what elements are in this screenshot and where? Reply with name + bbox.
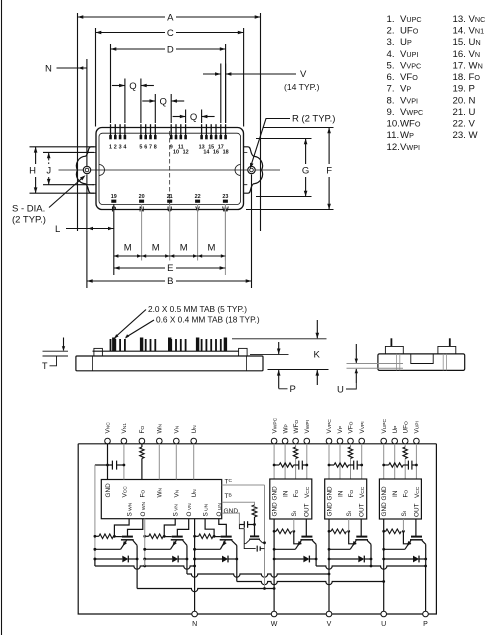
svg-text:T: T bbox=[42, 361, 48, 371]
output terminal P bbox=[423, 611, 429, 617]
W OUT pin stub bbox=[305, 519, 307, 536]
W gate resistor bbox=[274, 530, 276, 532]
low-side cell V: gate resistor bbox=[145, 535, 149, 537]
V FO vertical resistor bbox=[348, 447, 352, 459]
W GND pin stub bbox=[273, 519, 275, 531]
svg-text:O WN: O WN bbox=[140, 502, 147, 517]
svg-text:VWPC: VWPC bbox=[271, 417, 278, 433]
TB wire + resistor bbox=[222, 502, 255, 505]
svg-text:6: 6 bbox=[144, 145, 147, 151]
svg-text:6.: 6. bbox=[387, 72, 395, 83]
svg-text:D: D bbox=[167, 44, 174, 55]
svg-text:FO: FO bbox=[348, 490, 355, 498]
dim V bbox=[203, 73, 221, 75]
U low collector vertical bbox=[235, 558, 238, 561]
dim F extension lines bbox=[263, 127, 334, 129]
svg-text:GND GND: GND GND bbox=[326, 486, 333, 517]
svg-text:H: H bbox=[29, 166, 36, 177]
svg-text:VVPC: VVPC bbox=[326, 419, 333, 434]
svg-text:C: C bbox=[167, 28, 174, 39]
svg-text:U: U bbox=[469, 107, 476, 118]
svg-text:L: L bbox=[55, 224, 60, 235]
svg-text:O VN: O VN bbox=[186, 503, 193, 517]
svg-text:FO: FO bbox=[469, 72, 481, 83]
U output line bbox=[383, 531, 385, 611]
dim U reference lines bbox=[347, 363, 404, 365]
svg-text:N: N bbox=[45, 64, 52, 75]
V input network wire bbox=[329, 464, 334, 466]
dim C bbox=[96, 32, 166, 34]
dim A extension lines bbox=[77, 13, 79, 231]
svg-text:N: N bbox=[469, 95, 476, 106]
svg-text:VFO: VFO bbox=[348, 421, 355, 433]
baseplate left hole line bbox=[92, 356, 94, 371]
svg-text:G: G bbox=[302, 166, 309, 177]
svg-text:U: U bbox=[381, 621, 386, 628]
svg-text:K: K bbox=[314, 350, 321, 361]
V emitter wire bbox=[145, 548, 171, 550]
terminal WP bbox=[282, 438, 288, 444]
U S pin elbow bbox=[205, 519, 214, 537]
dim J extension lines bbox=[43, 151, 94, 153]
svg-text:F: F bbox=[326, 166, 332, 177]
GND wire bbox=[222, 513, 240, 524]
dim T bbox=[43, 350, 69, 352]
svg-text:2.0 X 0.5 MM TAB (5 TYP.): 2.0 X 0.5 MM TAB (5 TYP.) bbox=[148, 304, 247, 314]
V S pin elbow bbox=[164, 519, 175, 537]
left ear notch lines bbox=[92, 152, 96, 184]
svg-text:22: 22 bbox=[195, 194, 201, 200]
svg-text:12: 12 bbox=[183, 150, 189, 156]
terminal FO bbox=[139, 438, 145, 444]
dim K extension lines bbox=[232, 338, 327, 340]
terminal VVPI bbox=[359, 438, 365, 444]
svg-text:VUPI: VUPI bbox=[414, 421, 421, 433]
svg-text:J: J bbox=[46, 166, 51, 177]
vertical center dash line bbox=[169, 131, 171, 206]
svg-text:19.: 19. bbox=[453, 84, 466, 95]
dim J bbox=[48, 152, 50, 184]
svg-text:WP: WP bbox=[400, 130, 414, 141]
dim A bbox=[78, 16, 166, 18]
svg-text:UFO: UFO bbox=[400, 26, 419, 37]
svg-text:VWPC: VWPC bbox=[400, 107, 423, 118]
VN1 stub bbox=[123, 444, 125, 480]
svg-text:23.: 23. bbox=[453, 130, 466, 141]
horizontal center line bbox=[59, 169, 84, 171]
dim V extension lines bbox=[220, 64, 222, 124]
dim P bbox=[278, 342, 280, 354]
U Si pin stub bbox=[402, 519, 404, 531]
end view right post bbox=[438, 346, 456, 354]
P bus bbox=[316, 566, 426, 569]
svg-text:16.: 16. bbox=[453, 49, 466, 60]
svg-text:OUT: OUT bbox=[413, 503, 420, 517]
terminal VN1 bbox=[121, 438, 127, 444]
svg-text:7: 7 bbox=[149, 145, 152, 151]
svg-text:10.: 10. bbox=[387, 119, 400, 130]
svg-text:(2 TYP.): (2 TYP.) bbox=[12, 215, 46, 226]
svg-text:21.: 21. bbox=[453, 107, 466, 118]
S-DIA leader bbox=[49, 177, 84, 208]
M extension lines from bottom tabs bbox=[141, 204, 143, 261]
svg-text:WN: WN bbox=[157, 487, 164, 497]
dim Q1 extension lines bbox=[124, 79, 126, 124]
terminal VP bbox=[337, 438, 343, 444]
svg-text:UN: UN bbox=[469, 37, 481, 48]
svg-text:8.: 8. bbox=[387, 95, 395, 106]
U low freewheel diode bbox=[195, 558, 222, 560]
V collector line to P bus bbox=[370, 544, 372, 566]
svg-text:S - DIA.: S - DIA. bbox=[12, 204, 45, 215]
dim D bbox=[111, 48, 166, 50]
high-side IGBT W bbox=[301, 536, 312, 538]
svg-text:21: 21 bbox=[167, 194, 173, 200]
svg-text:2: 2 bbox=[114, 145, 117, 151]
svg-text:VN1: VN1 bbox=[469, 26, 485, 37]
R leader bbox=[251, 119, 291, 168]
svg-text:5.: 5. bbox=[387, 60, 395, 71]
U FO vertical resistor bbox=[403, 447, 407, 459]
svg-text:VVPI: VVPI bbox=[400, 95, 418, 106]
schematic top bus line bbox=[78, 443, 436, 445]
V emitter wire bbox=[329, 548, 350, 550]
svg-text:VNC: VNC bbox=[105, 422, 112, 434]
svg-text:B: B bbox=[167, 276, 173, 287]
V low freewheel diode bbox=[145, 558, 172, 560]
W low freewheel diode bbox=[95, 558, 122, 560]
dim Q2 bbox=[142, 100, 155, 102]
svg-text:W: W bbox=[469, 130, 479, 141]
dim D extension lines bbox=[110, 44, 112, 123]
side view case top bbox=[93, 350, 239, 352]
svg-text:VUPC: VUPC bbox=[381, 418, 388, 433]
dim H bbox=[35, 147, 37, 164]
right inner bump bbox=[235, 165, 240, 176]
W collector line to P bus bbox=[315, 544, 317, 566]
svg-text:3.: 3. bbox=[387, 37, 395, 48]
svg-text:VVPI: VVPI bbox=[359, 421, 366, 433]
U low collector route bbox=[236, 545, 238, 581]
svg-text:VN1: VN1 bbox=[121, 423, 128, 434]
end view left pin bbox=[390, 338, 392, 346]
end view right pin bbox=[449, 338, 451, 346]
U OUT pin stub bbox=[415, 519, 417, 536]
svg-text:WP: WP bbox=[282, 424, 289, 433]
schematic frame bbox=[78, 444, 436, 614]
svg-text:V: V bbox=[300, 69, 307, 80]
dim H extension lines bbox=[30, 146, 95, 148]
terminal VVPC bbox=[326, 438, 332, 444]
sensor cap 2 bbox=[256, 546, 258, 552]
VNC stub bbox=[107, 444, 109, 480]
svg-text:VN: VN bbox=[174, 489, 181, 497]
output terminal W bbox=[271, 611, 277, 617]
svg-text:VCC: VCC bbox=[304, 486, 311, 498]
high-side driver IC U box bbox=[379, 479, 421, 519]
svg-text:12.: 12. bbox=[387, 142, 400, 153]
U emitter wire bbox=[195, 548, 221, 550]
dim B bbox=[87, 280, 165, 282]
svg-text:VUPC: VUPC bbox=[400, 14, 422, 25]
dim Q3 bbox=[173, 116, 186, 118]
sensor transistor bbox=[254, 525, 256, 537]
svg-text:M: M bbox=[180, 243, 188, 254]
svg-text:19: 19 bbox=[111, 194, 117, 200]
terminal VUPC bbox=[381, 438, 387, 444]
E/L extension line (pin19) bbox=[113, 204, 115, 275]
svg-text:7.: 7. bbox=[387, 84, 395, 95]
svg-text:11.: 11. bbox=[387, 130, 400, 141]
svg-text:20: 20 bbox=[139, 194, 145, 200]
cap between VNC and VN1 lines bbox=[95, 464, 113, 466]
high-side group U: terminal stubs bbox=[383, 444, 385, 479]
module body inner lip bbox=[99, 133, 241, 204]
dim G extension lines bbox=[256, 138, 312, 140]
WN stub bbox=[158, 444, 160, 480]
svg-text:VP: VP bbox=[337, 426, 344, 434]
svg-text:VCC: VCC bbox=[414, 486, 421, 498]
low-side IGBT W bbox=[122, 536, 133, 538]
svg-text:M: M bbox=[208, 243, 216, 254]
high-side group W: terminal stubs bbox=[273, 444, 275, 479]
terminal VUPI bbox=[414, 438, 420, 444]
V low collector vertical bbox=[186, 558, 189, 561]
svg-text:14.: 14. bbox=[453, 26, 466, 37]
svg-text:SI: SI bbox=[401, 511, 408, 517]
svg-text:S VN: S VN bbox=[173, 504, 180, 517]
side view right post bbox=[239, 348, 248, 356]
dim P extension line (case top) bbox=[250, 354, 289, 356]
W output line bbox=[273, 531, 275, 611]
right mounting ear bbox=[244, 147, 263, 193]
svg-text:SI: SI bbox=[346, 511, 353, 517]
svg-text:R (2 TYP.): R (2 TYP.) bbox=[292, 114, 335, 125]
V GND pin stub bbox=[328, 519, 330, 531]
svg-text:Q: Q bbox=[190, 112, 197, 123]
W FO vertical resistor bbox=[293, 447, 297, 459]
svg-text:W: W bbox=[271, 621, 278, 628]
dim Q3 extension lines bbox=[185, 110, 187, 124]
svg-text:GND GND: GND GND bbox=[381, 486, 388, 517]
svg-text:P: P bbox=[469, 84, 475, 95]
terminal UN bbox=[191, 438, 197, 444]
svg-text:O UN: O UN bbox=[216, 503, 223, 517]
terminal WN bbox=[157, 438, 163, 444]
terminal VN bbox=[174, 438, 180, 444]
right ear notch lines bbox=[244, 152, 248, 184]
dim Q1 bbox=[112, 85, 125, 87]
svg-text:V: V bbox=[327, 621, 332, 628]
svg-text:(14 TYP.): (14 TYP.) bbox=[284, 82, 320, 92]
svg-text:VCC: VCC bbox=[121, 486, 128, 498]
dim M x4 bbox=[114, 255, 142, 257]
svg-text:18.: 18. bbox=[453, 72, 466, 83]
svg-text:N: N bbox=[192, 621, 197, 628]
side view left post bbox=[94, 348, 103, 356]
W S pin elbow bbox=[114, 519, 129, 537]
svg-text:4.: 4. bbox=[387, 49, 395, 60]
V a-line from IC bbox=[144, 519, 146, 566]
low-side emitter bus to N bbox=[94, 559, 96, 566]
terminal UP bbox=[392, 438, 398, 444]
svg-text:A: A bbox=[167, 12, 174, 23]
UN stub bbox=[193, 444, 195, 480]
TC vertical bbox=[264, 485, 266, 589]
svg-text:1.: 1. bbox=[387, 14, 395, 25]
svg-text:FO: FO bbox=[403, 490, 410, 498]
W input network wire bbox=[274, 464, 279, 466]
svg-text:18: 18 bbox=[223, 150, 229, 156]
svg-text:22.: 22. bbox=[453, 119, 466, 130]
terminal VNC bbox=[105, 438, 111, 444]
module body outline (top view) bbox=[96, 128, 244, 210]
dim U bbox=[355, 344, 357, 363]
svg-text:5: 5 bbox=[139, 145, 142, 151]
U O pin elbow bbox=[219, 519, 227, 536]
svg-text:23: 23 bbox=[222, 194, 228, 200]
svg-text:9.: 9. bbox=[387, 107, 395, 118]
sensor cap bbox=[239, 524, 244, 526]
svg-text:S WN: S WN bbox=[127, 502, 134, 516]
TC wire bbox=[222, 484, 265, 486]
W emitter wire bbox=[274, 548, 295, 550]
side view thick tabs (5) bbox=[112, 338, 115, 352]
high-side IGBT V bbox=[356, 536, 367, 538]
svg-text:VWPI: VWPI bbox=[400, 142, 420, 153]
svg-text:VCC: VCC bbox=[359, 486, 366, 498]
dim G bbox=[305, 139, 307, 165]
output terminal U bbox=[381, 611, 387, 617]
svg-text:8: 8 bbox=[154, 145, 157, 151]
svg-text:P: P bbox=[423, 621, 428, 628]
V gate resistor bbox=[329, 530, 331, 532]
U input network wire bbox=[384, 464, 389, 466]
output terminal N bbox=[192, 611, 198, 617]
low-side IGBT U bbox=[221, 536, 232, 538]
V OUT pin stub bbox=[360, 519, 362, 536]
svg-text:GND: GND bbox=[224, 508, 239, 515]
left mounting hole bbox=[83, 166, 90, 173]
svg-text:3: 3 bbox=[119, 145, 122, 151]
svg-text:WN: WN bbox=[157, 423, 164, 433]
svg-text:UN: UN bbox=[191, 425, 198, 434]
page border line bbox=[1, 0, 3, 635]
low-side cell W: gate resistor bbox=[95, 535, 99, 537]
svg-text:FO: FO bbox=[139, 426, 146, 434]
high-side IGBT U bbox=[411, 536, 422, 538]
low-side cell U: gate resistor bbox=[195, 535, 199, 537]
dim Q2 extension lines bbox=[154, 94, 156, 123]
svg-text:VP: VP bbox=[400, 84, 411, 95]
dim E bbox=[114, 267, 165, 269]
svg-text:VVPC: VVPC bbox=[400, 60, 421, 71]
FO stub + resistor bbox=[141, 444, 143, 447]
svg-text:Q: Q bbox=[129, 81, 136, 92]
U gate resistor bbox=[384, 530, 386, 532]
U emitter wire bbox=[384, 548, 405, 550]
high-side driver IC W box bbox=[270, 479, 312, 519]
svg-text:1: 1 bbox=[109, 145, 112, 151]
output terminal V bbox=[326, 611, 332, 617]
U collector line to P bus bbox=[425, 544, 427, 566]
end view center recess bbox=[411, 354, 433, 364]
end view through lines bbox=[396, 354, 398, 371]
svg-text:WFO: WFO bbox=[293, 420, 300, 434]
svg-text:V: V bbox=[469, 119, 476, 130]
svg-text:17.: 17. bbox=[453, 60, 466, 71]
svg-text:GND GND: GND GND bbox=[272, 486, 279, 517]
W low collector route bbox=[136, 545, 138, 588]
terminal WFO bbox=[293, 438, 299, 444]
svg-text:0.6 X 0.4 MM TAB (18 TYP.): 0.6 X 0.4 MM TAB (18 TYP.) bbox=[156, 315, 260, 325]
W O pin elbow bbox=[128, 519, 143, 536]
W emitter wire bbox=[95, 548, 121, 550]
svg-text:M: M bbox=[124, 243, 132, 254]
svg-text:13.: 13. bbox=[453, 14, 466, 25]
svg-text:UN: UN bbox=[191, 489, 198, 498]
side view thin tabs (18) bbox=[110, 339, 112, 351]
svg-text:U: U bbox=[337, 385, 344, 396]
high-side group V: terminal stubs bbox=[328, 444, 330, 479]
U freewheel diode bbox=[384, 558, 413, 560]
U GND pin stub bbox=[383, 519, 385, 531]
svg-text:GND: GND bbox=[105, 483, 112, 498]
V low collector route bbox=[186, 545, 188, 574]
W freewheel diode bbox=[274, 558, 303, 560]
svg-text:E: E bbox=[167, 263, 173, 274]
VN stub bbox=[175, 444, 177, 480]
svg-text:IN: IN bbox=[392, 490, 399, 497]
V O pin elbow bbox=[177, 519, 188, 536]
dim F bbox=[328, 128, 330, 165]
svg-text:OUT: OUT bbox=[359, 503, 366, 517]
terminal VWPC bbox=[271, 438, 277, 444]
P feed line bbox=[425, 566, 427, 611]
terminal VWPI bbox=[304, 438, 310, 444]
right mounting hole bbox=[248, 166, 255, 173]
svg-text:P: P bbox=[290, 384, 296, 395]
baseplate right hole line bbox=[246, 356, 248, 371]
W low collector vertical bbox=[136, 558, 139, 561]
signal ground line down from cap junction (W a-line) bbox=[94, 465, 96, 566]
svg-text:2.: 2. bbox=[387, 26, 395, 37]
svg-text:FO: FO bbox=[293, 490, 300, 498]
svg-text:Q: Q bbox=[160, 96, 167, 107]
svg-text:WFO: WFO bbox=[400, 119, 421, 130]
svg-text:UFO: UFO bbox=[402, 421, 409, 434]
svg-text:FO: FO bbox=[139, 490, 146, 498]
svg-text:VN: VN bbox=[174, 425, 181, 433]
svg-text:VFO: VFO bbox=[400, 72, 418, 83]
left mounting ear bbox=[76, 147, 96, 193]
svg-text:SI: SI bbox=[291, 511, 298, 517]
svg-text:VWPI: VWPI bbox=[304, 420, 311, 434]
low-side driver IC box bbox=[101, 480, 221, 519]
svg-text:4: 4 bbox=[123, 145, 126, 151]
svg-text:IN: IN bbox=[337, 490, 344, 497]
svg-text:VN: VN bbox=[469, 49, 481, 60]
svg-text:UP: UP bbox=[400, 37, 412, 48]
low-side IGBT V bbox=[172, 536, 183, 538]
high-side driver IC V box bbox=[325, 479, 367, 519]
end view body bbox=[378, 354, 465, 371]
N line (U a-line) bbox=[194, 519, 196, 612]
V freewheel diode bbox=[329, 558, 358, 560]
svg-text:WN: WN bbox=[469, 60, 483, 71]
left inner bump bbox=[99, 165, 105, 176]
svg-text:M: M bbox=[152, 243, 160, 254]
